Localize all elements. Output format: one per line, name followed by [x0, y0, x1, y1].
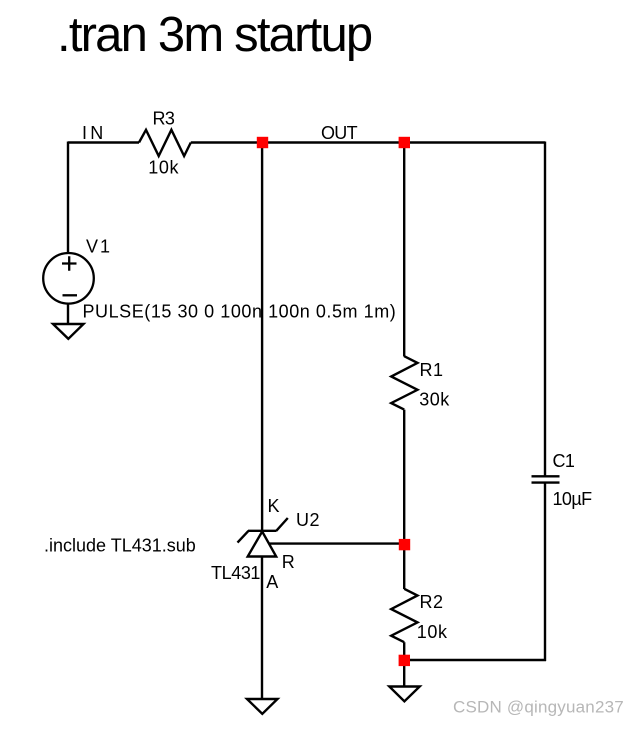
voltage source V1 [43, 253, 94, 304]
svg-text:K: K [268, 496, 280, 516]
wire IN stub [68, 141, 139, 143]
wire TL431 anode down to ground [261, 557, 263, 700]
resistor R1 [391, 356, 417, 409]
svg-text:U2: U2 [296, 510, 320, 530]
wire R1 to feedback node [403, 410, 405, 544]
svg-text:10k: 10k [148, 158, 179, 178]
wire bottom node to ground [403, 661, 405, 687]
svg-text:30k: 30k [419, 389, 450, 409]
svg-text:R2: R2 [420, 592, 444, 612]
svg-text:10µF: 10µF [553, 489, 593, 509]
wire bottom horizontal to C1 [404, 659, 546, 661]
svg-text:C1: C1 [553, 451, 575, 471]
svg-text:A: A [266, 572, 278, 592]
ground under TL431 [247, 699, 278, 714]
wire right vertical from top corner down to C1 [544, 142, 546, 477]
svg-text:R3: R3 [153, 109, 175, 129]
resistor R2 [391, 589, 417, 642]
ground under V1 [53, 324, 84, 339]
svg-text:10k: 10k [417, 622, 448, 642]
svg-text:R1: R1 [420, 360, 444, 380]
svg-text:PULSE(15 30 0 100n 100n 0.5m 1: PULSE(15 30 0 100n 100n 0.5m 1m) [83, 302, 397, 322]
wire feedback node down to R2 [403, 545, 405, 589]
wire OUT junction down to R1 [403, 143, 405, 357]
svg-text:TL431: TL431 [211, 563, 260, 583]
wire TL431 reference pin to divider node [269, 542, 405, 544]
junction feedback node (red) [399, 539, 410, 550]
wire top horizontal R3 to top-right corner [191, 141, 545, 143]
wire vertical IN down to V1 [67, 142, 69, 254]
wire junction down to TL431 cathode [261, 143, 263, 531]
junction node OUT (red) [399, 137, 410, 148]
svg-text:OUT: OUT [321, 123, 358, 143]
svg-text:IN: IN [82, 123, 106, 143]
resistor R3 [139, 130, 191, 156]
wire R2 to bottom node [403, 642, 405, 660]
wire C1 bottom down to bottom rail [544, 483, 546, 661]
ground under R2 [389, 687, 419, 702]
junction node after R3 (red) [257, 137, 268, 148]
shunt regulator U2 TL431 symbol [238, 518, 288, 557]
svg-text:CSDN @qingyuan237: CSDN @qingyuan237 [453, 698, 624, 717]
junction bottom node (red) [399, 655, 410, 666]
svg-text:.tran 3m startup: .tran 3m startup [57, 8, 372, 62]
wire V1 to ground [67, 303, 69, 325]
capacitor C1 [532, 476, 560, 482]
svg-text:.include TL431.sub: .include TL431.sub [44, 536, 196, 556]
svg-text:R: R [282, 552, 295, 572]
svg-text:V1: V1 [86, 237, 112, 257]
